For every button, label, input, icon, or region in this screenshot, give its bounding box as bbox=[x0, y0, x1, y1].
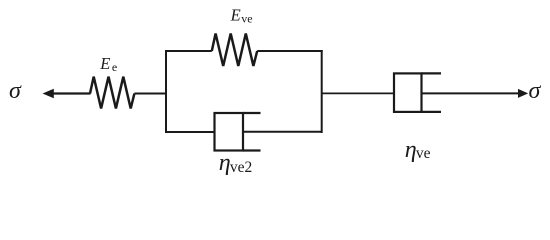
wire: spring Ee to left rail bbox=[134, 93, 167, 95]
value label Eve bbox=[230, 5, 253, 25]
value label eta_ve2 bbox=[219, 150, 252, 176]
svg-text:σ: σ bbox=[529, 78, 542, 104]
wire: left vertical rail of parallel block bbox=[165, 50, 167, 133]
svg-text:ve2: ve2 bbox=[230, 159, 252, 176]
svg-text:σ: σ bbox=[9, 78, 22, 104]
right load arrow (piston rod + arrowhead) bbox=[422, 89, 529, 98]
wire: middle connector to right dashpot bbox=[322, 92, 394, 94]
svg-text:E: E bbox=[230, 5, 241, 24]
svg-text:ve: ve bbox=[241, 11, 252, 25]
node sigma right (stress label) bbox=[529, 78, 542, 104]
spring Ee bbox=[90, 77, 134, 109]
dashpot eta_ve (cylinder + piston) bbox=[394, 73, 441, 112]
svg-text:ve: ve bbox=[416, 145, 431, 162]
wire: bottom branch right segment (piston rod) bbox=[243, 131, 322, 133]
wire: bottom branch left segment bbox=[165, 131, 215, 133]
svg-text:e: e bbox=[112, 60, 117, 74]
value label eta_ve bbox=[405, 137, 431, 163]
left load arrow bbox=[43, 89, 91, 98]
node sigma left (stress label) bbox=[9, 78, 22, 104]
dashpot eta_ve2 (cylinder + piston) bbox=[215, 113, 261, 151]
wire: right vertical rail of parallel block bbox=[321, 50, 323, 133]
wire: top branch right segment bbox=[257, 50, 323, 52]
value label Ee bbox=[99, 54, 117, 74]
svg-text:E: E bbox=[99, 54, 110, 73]
wire: top branch left segment bbox=[165, 50, 212, 52]
spring Eve bbox=[212, 34, 257, 67]
